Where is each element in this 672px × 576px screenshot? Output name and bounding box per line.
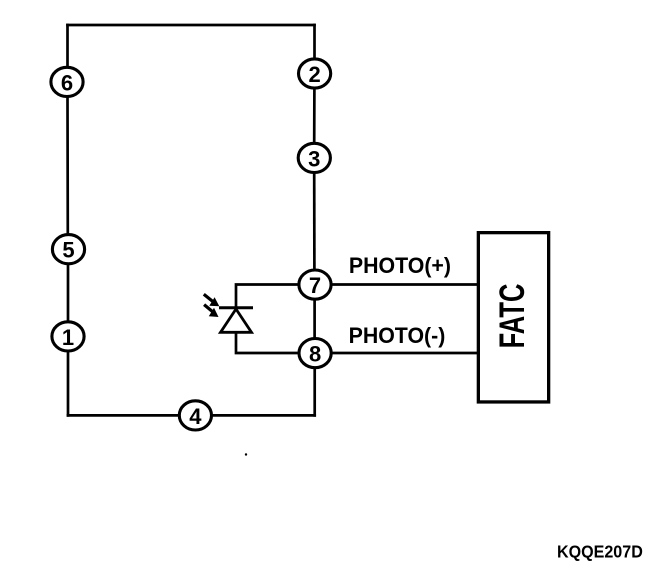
- wire left column: pin 6 to pin 5: [66, 98, 69, 233]
- wire middle column: pin 2 to top corner: [313, 25, 316, 58]
- wire middle column: bottom corner to pin 8: [313, 369, 316, 415]
- pin circle 4: [179, 401, 211, 430]
- wire pin 7 to photodiode cathode top: [236, 285, 299, 307]
- wire pin 7 to FATC (PHOTO+): [331, 283, 477, 286]
- photodiode D1 cathode bar: [219, 306, 253, 309]
- wire bottom: left corner to pin 4: [68, 414, 180, 417]
- svg-text:3: 3: [308, 146, 320, 171]
- svg-text:PHOTO(+): PHOTO(+): [349, 253, 451, 278]
- light arrow lower: [204, 305, 218, 317]
- svg-text:5: 5: [62, 238, 74, 263]
- wire bottom: pin 4 to right corner: [212, 414, 315, 417]
- wire photodiode anode to pin 8: [236, 334, 299, 354]
- svg-text:PHOTO(-): PHOTO(-): [349, 323, 446, 348]
- light arrow upper: [204, 294, 220, 306]
- svg-text:4: 4: [189, 404, 202, 429]
- photodiode D1 triangle: [221, 309, 252, 332]
- svg-text:KQQE207D: KQQE207D: [557, 542, 643, 562]
- wire top horizontal: [68, 24, 315, 27]
- wire middle column: pin 7 to pin 3: [313, 174, 316, 269]
- pin circle 6: [51, 67, 83, 96]
- svg-text:1: 1: [62, 325, 74, 350]
- wire left column: pin 1 to bottom corner: [67, 353, 70, 416]
- pin circle 5: [52, 235, 84, 264]
- wire middle column: pin 8 to pin 7: [313, 301, 316, 338]
- wire left column: pin 5 to pin 1: [67, 265, 70, 321]
- pin circle 7: [299, 270, 331, 299]
- pin circle 3: [298, 143, 330, 172]
- pin circle 2: [299, 59, 331, 88]
- svg-text:FATC: FATC: [493, 284, 532, 349]
- FATC box U1: [478, 233, 548, 402]
- wire left column: top corner to pin 6: [66, 25, 69, 66]
- pin circle 8: [299, 339, 331, 368]
- svg-text:7: 7: [309, 273, 321, 298]
- wire middle column: pin 3 to pin 2: [313, 90, 316, 143]
- speck artifact: [245, 453, 247, 455]
- svg-text:2: 2: [308, 62, 320, 87]
- svg-text:6: 6: [61, 70, 73, 95]
- wire pin 8 to FATC (PHOTO-): [331, 352, 477, 355]
- pin circle 1: [52, 322, 84, 351]
- svg-text:8: 8: [309, 342, 321, 367]
